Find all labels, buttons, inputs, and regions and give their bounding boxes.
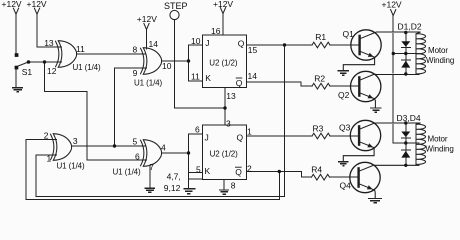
svg-text:12: 12 — [47, 66, 57, 76]
svg-text:15: 15 — [248, 45, 258, 55]
svg-text:Q2: Q2 — [338, 90, 350, 100]
svg-text:13: 13 — [44, 38, 54, 48]
svg-text:U1 (1/4): U1 (1/4) — [73, 63, 102, 72]
svg-text:K: K — [205, 166, 211, 176]
svg-text:10: 10 — [191, 36, 201, 46]
svg-text:Winding: Winding — [426, 144, 454, 153]
svg-text:J: J — [205, 133, 209, 143]
svg-text:Q: Q — [235, 167, 242, 177]
svg-text:7: 7 — [149, 162, 154, 172]
svg-text:R3: R3 — [313, 123, 324, 133]
svg-text:3: 3 — [226, 118, 231, 128]
svg-text:1: 1 — [47, 153, 52, 163]
svg-text:14: 14 — [248, 71, 258, 81]
svg-text:14: 14 — [149, 39, 159, 49]
svg-text:J: J — [205, 38, 209, 48]
svg-text:STEP: STEP — [164, 1, 188, 11]
svg-text:13: 13 — [226, 91, 236, 101]
svg-text:S1: S1 — [22, 67, 33, 77]
svg-text:+12V: +12V — [27, 0, 47, 9]
svg-text:U1 (1/4): U1 (1/4) — [113, 167, 142, 176]
svg-text:10: 10 — [162, 61, 172, 71]
svg-text:4,7,: 4,7, — [167, 172, 181, 182]
svg-text:D1,D2: D1,D2 — [398, 21, 422, 31]
svg-text:Q: Q — [236, 78, 243, 88]
svg-text:5: 5 — [133, 137, 138, 147]
svg-text:U2 (1/2): U2 (1/2) — [209, 58, 238, 67]
svg-text:K: K — [205, 73, 211, 83]
svg-text:4: 4 — [161, 143, 166, 153]
svg-text:9,12: 9,12 — [164, 183, 181, 193]
svg-text:Q: Q — [238, 39, 245, 49]
svg-text:R4: R4 — [311, 165, 322, 175]
svg-text:+12V: +12V — [213, 0, 233, 9]
svg-text:Motor: Motor — [428, 135, 448, 144]
svg-text:6: 6 — [195, 124, 200, 134]
svg-text:+12V: +12V — [137, 14, 157, 24]
svg-text:Q4: Q4 — [340, 181, 352, 191]
svg-text:U1 (1/4): U1 (1/4) — [57, 161, 86, 170]
svg-text:+12V: +12V — [382, 0, 402, 10]
svg-text:5: 5 — [196, 164, 201, 174]
svg-text:Q3: Q3 — [339, 123, 351, 133]
svg-text:8: 8 — [133, 45, 138, 55]
svg-text:Motor: Motor — [428, 46, 448, 55]
svg-text:16: 16 — [211, 26, 221, 36]
svg-text:Q1: Q1 — [343, 29, 355, 39]
svg-text:8: 8 — [231, 180, 236, 190]
svg-text:3: 3 — [73, 136, 78, 146]
svg-text:9: 9 — [133, 68, 138, 78]
svg-text:R1: R1 — [315, 32, 326, 42]
svg-text:2: 2 — [247, 163, 252, 173]
svg-text:11: 11 — [191, 71, 200, 81]
svg-text:11: 11 — [76, 44, 85, 54]
svg-text:1: 1 — [247, 127, 252, 137]
svg-text:2: 2 — [44, 131, 49, 141]
svg-text:D3,D4: D3,D4 — [397, 113, 421, 123]
svg-text:Winding: Winding — [426, 56, 454, 65]
svg-text:6: 6 — [135, 152, 140, 162]
svg-text:+12V: +12V — [2, 0, 22, 9]
svg-text:U1 (1/4): U1 (1/4) — [134, 79, 163, 88]
svg-text:Q: Q — [237, 133, 244, 143]
svg-text:U2 (1/2): U2 (1/2) — [210, 150, 239, 159]
svg-text:R2: R2 — [314, 73, 325, 83]
